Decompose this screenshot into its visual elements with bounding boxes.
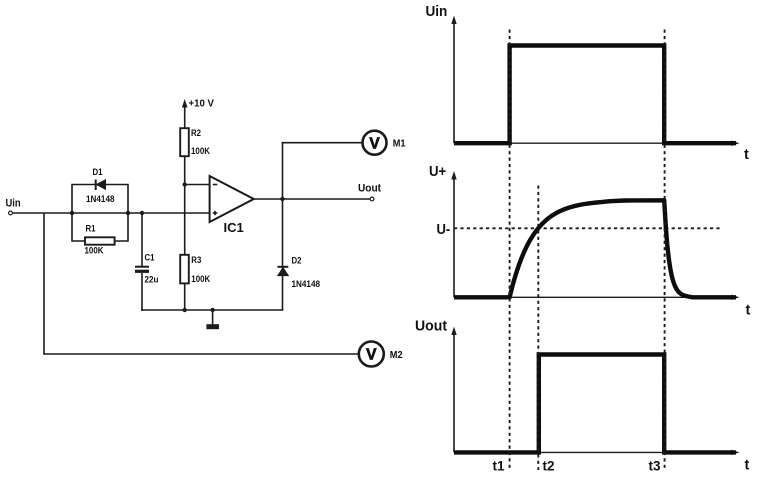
label +10 V bbox=[189, 98, 215, 110]
diode D2 bbox=[278, 267, 289, 276]
svg-text:V: V bbox=[366, 347, 377, 364]
graph1 label Uin bbox=[426, 4, 448, 20]
label D2 bbox=[292, 256, 302, 267]
graph2 signal U+ exponential bbox=[454, 200, 736, 297]
capacitor C1 bbox=[135, 267, 149, 272]
resistor R2 bbox=[180, 128, 189, 156]
svg-text:U+: U+ bbox=[429, 164, 446, 180]
graph3 axis Uout bbox=[451, 327, 739, 456]
marker dashed line t1 bbox=[509, 30, 511, 471]
graph1 label t bbox=[744, 147, 749, 163]
svg-text:R2: R2 bbox=[191, 128, 201, 139]
diode D1 bbox=[96, 180, 106, 191]
wire op-amp output bbox=[254, 198, 283, 200]
graph1 axis Uin bbox=[451, 16, 739, 146]
svg-text:Uout: Uout bbox=[358, 182, 381, 194]
wire C1 branch upper bbox=[141, 213, 143, 266]
label R3 bbox=[191, 255, 201, 266]
marker dashed line t2 bbox=[537, 186, 539, 471]
svg-text:C1: C1 bbox=[145, 253, 156, 264]
svg-text:R3: R3 bbox=[191, 255, 201, 266]
svg-text:V: V bbox=[369, 135, 380, 152]
value 1N4148 (D2) bbox=[292, 279, 321, 290]
svg-text:t: t bbox=[744, 147, 749, 163]
label Uout bbox=[358, 182, 381, 194]
svg-text:+10 V: +10 V bbox=[189, 98, 215, 110]
svg-text:t3: t3 bbox=[649, 459, 661, 473]
value 22u (C1) bbox=[145, 275, 159, 286]
wire R3 to bottom rail bbox=[184, 283, 186, 310]
value 100K (R2) bbox=[191, 146, 210, 157]
svg-text:t2: t2 bbox=[543, 459, 555, 473]
svg-text:1N4148: 1N4148 bbox=[86, 194, 115, 205]
svg-text:22u: 22u bbox=[145, 275, 159, 286]
voltmeter M2 bbox=[359, 342, 384, 367]
graph2 threshold dashed U- line bbox=[454, 227, 720, 229]
value 1N4148 (D1) bbox=[86, 194, 115, 205]
label t2 bbox=[543, 459, 555, 474]
svg-text:IC1: IC1 bbox=[224, 220, 244, 235]
wire bottom rail bbox=[141, 309, 283, 311]
label C1 bbox=[145, 253, 156, 264]
svg-text:t1: t1 bbox=[493, 459, 505, 473]
wire to voltmeter M1 bbox=[282, 142, 362, 144]
svg-text:U-: U- bbox=[437, 222, 451, 238]
node Uin label bbox=[6, 198, 21, 210]
wire output vertical bbox=[282, 143, 284, 310]
junction right of D1/R1 loop bbox=[126, 211, 130, 215]
svg-text:M1: M1 bbox=[393, 138, 406, 150]
svg-text:100K: 100K bbox=[191, 146, 210, 157]
svg-text:Uin: Uin bbox=[6, 198, 21, 210]
resistor R3 bbox=[180, 255, 189, 284]
svg-text:t: t bbox=[746, 303, 751, 319]
graph3 label Uout bbox=[415, 319, 447, 335]
label R1 bbox=[86, 224, 97, 235]
graph3 label t bbox=[745, 458, 750, 474]
power +10 V arrow bbox=[182, 99, 188, 128]
label t3 bbox=[649, 459, 661, 474]
svg-text:M2: M2 bbox=[390, 349, 403, 361]
resistor R1 bbox=[85, 237, 115, 244]
junction C1 tap bbox=[140, 211, 144, 215]
graph3 signal Uout pulse bbox=[454, 355, 736, 453]
label IC1 bbox=[224, 220, 244, 235]
op-amp IC1 bbox=[210, 176, 254, 222]
svg-text:Uout: Uout bbox=[415, 319, 447, 335]
marker dashed line t3 bbox=[664, 30, 666, 471]
ground bbox=[206, 310, 219, 329]
label R2 bbox=[191, 128, 201, 139]
junction output node bbox=[280, 197, 284, 201]
junction left of D1/R1 loop bbox=[70, 211, 74, 215]
svg-text:D1: D1 bbox=[93, 167, 104, 178]
node Uout terminal bbox=[370, 197, 374, 201]
junction inverting input tee bbox=[183, 182, 187, 186]
wire D1/R1 loop bbox=[72, 185, 128, 242]
value 100K (R3) bbox=[191, 274, 210, 285]
svg-text:R1: R1 bbox=[86, 224, 97, 235]
value 100K (R1) bbox=[85, 246, 104, 257]
svg-text:1N4148: 1N4148 bbox=[292, 279, 321, 290]
graph2 label U- bbox=[437, 222, 451, 238]
wire C1 branch lower bbox=[141, 273, 143, 311]
junction R3 bottom bbox=[183, 308, 187, 312]
wire Uout bbox=[283, 198, 371, 200]
wire M2 branch vertical bbox=[43, 213, 45, 354]
graph1 signal Uin pulse bbox=[454, 46, 736, 144]
wire input main horizontal bbox=[13, 212, 210, 214]
graph2 label t bbox=[746, 303, 751, 319]
wire inverting input bbox=[185, 184, 211, 186]
graph2 label U+ bbox=[429, 164, 446, 180]
svg-text:Uin: Uin bbox=[426, 4, 448, 20]
svg-text:t: t bbox=[745, 458, 750, 473]
svg-text:100K: 100K bbox=[191, 274, 210, 285]
wire R2 to R3 vertical bus bbox=[184, 156, 186, 255]
wire M2 branch horizontal bbox=[43, 353, 358, 355]
label M1 bbox=[393, 138, 406, 150]
svg-text:D2: D2 bbox=[292, 256, 302, 267]
label t1 bbox=[493, 459, 505, 474]
label M2 bbox=[390, 349, 403, 361]
junction ground tap bbox=[210, 308, 214, 312]
graph2 axis U+ bbox=[451, 171, 739, 300]
input terminal bbox=[9, 211, 13, 215]
voltmeter M1 bbox=[363, 131, 387, 155]
svg-text:100K: 100K bbox=[85, 246, 104, 257]
label D1 bbox=[93, 167, 104, 178]
